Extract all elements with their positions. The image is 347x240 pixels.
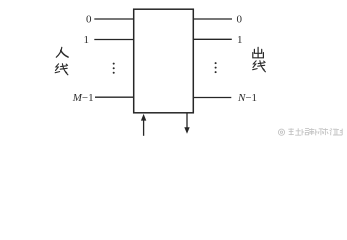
label 入 (input, char ru) xyxy=(56,47,68,57)
wire input 1 xyxy=(94,39,133,41)
svg-text:0: 0 xyxy=(86,14,92,26)
label 出 (output, char chu) xyxy=(253,47,264,57)
wire output 0 xyxy=(193,18,232,20)
control arrow down (out of box) xyxy=(184,113,189,133)
wire input 0 xyxy=(94,18,133,20)
wire output N-1 xyxy=(193,97,231,99)
control arrow up (into box) xyxy=(141,114,146,136)
switch box U1 xyxy=(134,9,194,113)
label 线 (input, char xian) xyxy=(55,64,68,75)
svg-text:N−1: N−1 xyxy=(237,92,257,104)
wire input M-1 xyxy=(95,96,134,98)
watermark @稀土掘金技术社区 (approximated glyph strokes, light gray) xyxy=(278,128,342,135)
ellipsis dots (input side) xyxy=(113,63,115,74)
svg-text:1: 1 xyxy=(84,34,90,46)
svg-text:1: 1 xyxy=(237,34,243,46)
svg-text:0: 0 xyxy=(237,14,243,26)
label 线 (output, char xian) xyxy=(253,61,266,72)
svg-text:M−1: M−1 xyxy=(72,92,94,104)
ellipsis dots (output side) xyxy=(215,62,217,73)
wire output 1 xyxy=(193,38,232,40)
